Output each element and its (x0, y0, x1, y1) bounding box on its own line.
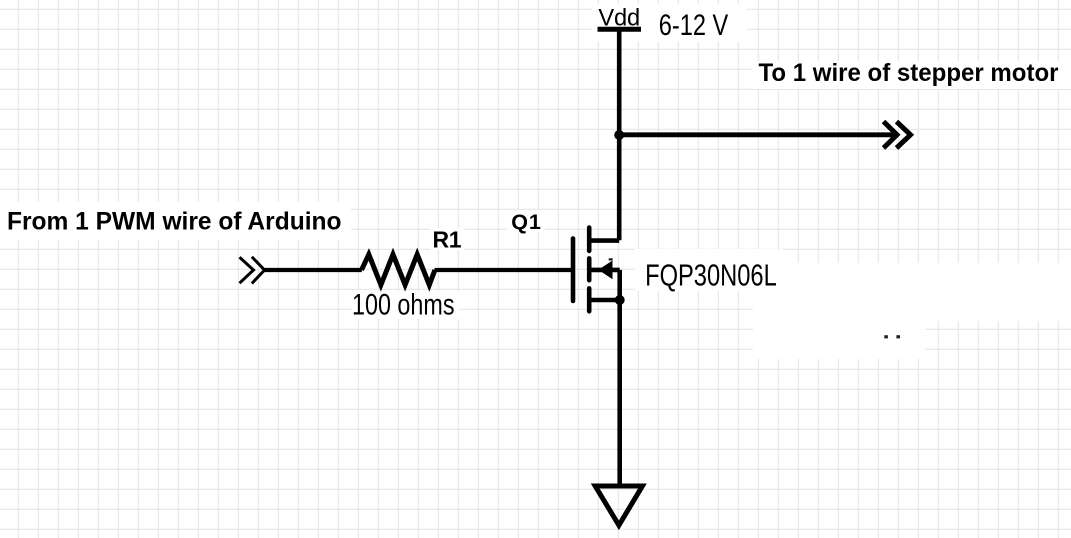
label box To 1 wire of stepper motor (752, 61, 1071, 89)
wire input chevron to resistor R1 (263, 268, 362, 272)
svg-text:FQP30N06L: FQP30N06L (645, 259, 777, 293)
Q1 channel bottom segment (587, 288, 592, 311)
node A junction dot (614, 130, 624, 140)
stray mark right (896, 335, 900, 338)
Q1 body vertical to source (617, 270, 622, 300)
Q1 source connector (589, 298, 620, 303)
wire Vdd bar down to node A (617, 29, 622, 135)
Q1 source junction dot (615, 295, 625, 305)
stray mark left (884, 335, 888, 338)
wire node A down to Q1 drain (617, 135, 622, 240)
svg-text:100 ohms: 100 ohms (352, 289, 455, 322)
label box FQP30N06L (635, 249, 783, 291)
power symbol Vdd bar (598, 27, 642, 32)
svg-text:6-12 V: 6-12 V (659, 9, 728, 42)
label box Vdd / 6-12 V (592, 4, 747, 42)
stray tick above body arrow (609, 258, 613, 260)
transistor Q1 FQP30N06L (573, 228, 620, 312)
input port chevron from Arduino (240, 257, 265, 284)
Q1 body diode arrow (599, 261, 612, 278)
wire node A to stepper motor output (619, 132, 897, 137)
Q1 drain connector (589, 238, 619, 243)
label box right of transistor (753, 263, 1071, 321)
Q1 gate bar (571, 239, 576, 302)
wire Q1 source to ground (617, 300, 622, 486)
resistor R1 zigzag (362, 254, 435, 285)
wire resistor R1 to Q1 gate (435, 268, 572, 272)
Q1 body connector horizontal (589, 268, 620, 273)
label box From 1 PWM wire of Arduino (0, 202, 351, 240)
Q1 channel middle segment (587, 258, 592, 280)
label box R1 (430, 228, 464, 250)
svg-text:To 1 wire of stepper motor: To 1 wire of stepper motor (759, 59, 1059, 87)
output port chevron to stepper motor (884, 122, 911, 149)
svg-text:R1: R1 (433, 227, 462, 253)
label box Q1 (507, 210, 545, 232)
Q1 channel top segment (587, 228, 592, 251)
label box 100 ohms (352, 291, 459, 319)
svg-text:Q1: Q1 (511, 210, 541, 234)
svg-text:From 1 PWM wire of Arduino: From 1 PWM wire of Arduino (7, 209, 342, 236)
ground symbol (595, 486, 642, 525)
label box below stepper wire (753, 321, 925, 359)
svg-text:Vdd: Vdd (598, 6, 640, 32)
